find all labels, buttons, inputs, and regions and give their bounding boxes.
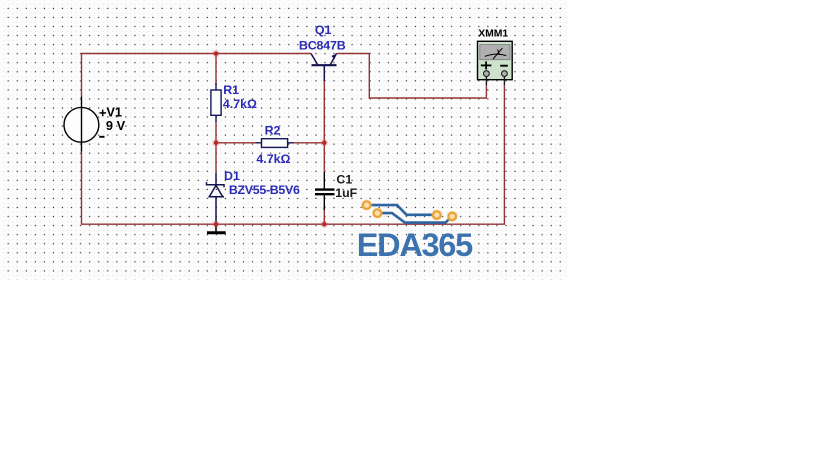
junction node C1 on bottom rail: [322, 222, 327, 227]
resistor R2: [256, 139, 294, 148]
multimeter XMM1: [478, 41, 513, 79]
wire top rail left: V1 to Q1 collector: [82, 54, 312, 97]
wire Q1 base down to node C: [323, 80, 325, 143]
svg-text:R1: R1: [223, 83, 239, 97]
svg-text:XMM1: XMM1: [478, 28, 508, 39]
ground: [207, 224, 226, 233]
transistor Q1: [311, 54, 337, 82]
capacitor C1: [315, 172, 335, 210]
wire multimeter - terminal down to bottom rail: [82, 85, 505, 224]
resistor R1: [211, 83, 221, 122]
svg-text:1uF: 1uF: [335, 186, 357, 200]
wire node C down to C1: [323, 143, 325, 172]
svg-text:EDA365: EDA365: [357, 227, 473, 263]
wire R2 right to node C: [293, 142, 324, 144]
svg-text:R2: R2: [265, 123, 281, 137]
XMM1 plus terminal mark: [481, 61, 492, 69]
junction halo glows: [212, 50, 328, 229]
wire C1 bottom to bottom rail: [323, 208, 325, 224]
schematic grid background: [0, 0, 569, 280]
svg-text:C1: C1: [336, 173, 352, 187]
svg-text:4.7kΩ: 4.7kΩ: [223, 97, 257, 111]
svg-text:BZV55-B5V6: BZV55-B5V6: [229, 183, 300, 197]
EDA365 logo pad 3: [431, 209, 442, 220]
EDA365 logo pad 4: [447, 211, 458, 222]
EDA365 logo pad 2: [372, 208, 383, 219]
wire node B down to D1: [215, 143, 217, 173]
junction node at R1 top on rail: [214, 51, 219, 56]
junction node D1/ground on bottom rail: [214, 222, 219, 227]
svg-text:V1: V1: [106, 104, 122, 119]
svg-text:BC847B: BC847B: [299, 39, 346, 53]
wire R1 top lead from rail: [215, 54, 217, 86]
svg-text:9 V: 9 V: [106, 118, 126, 133]
svg-text:4.7kΩ: 4.7kΩ: [256, 152, 290, 166]
junction node C (R2/Q1 base/C1): [322, 141, 327, 146]
EDA365 logo trace 2: [377, 213, 452, 223]
svg-text:Q1: Q1: [315, 23, 332, 37]
XMM1 + terminal pin: [484, 71, 490, 77]
svg-text:D1: D1: [224, 169, 240, 183]
wire R1 bottom to node B: [215, 121, 217, 143]
XMM1 - terminal pin: [502, 71, 508, 77]
XMM1 pin leads: [486, 77, 504, 86]
EDA365 logo pad 1: [361, 200, 372, 211]
V1 minus mark: [99, 136, 104, 138]
zener diode D1: [207, 173, 225, 224]
Q1 emitter arrow: [331, 54, 336, 59]
wire top rail right: Q1 emitter to corner, down and across to multimeter + terminal: [337, 54, 487, 99]
V1 plus mark: [100, 110, 107, 117]
EDA365 logo trace 1: [367, 205, 437, 215]
junction node B (R1/R2/D1): [214, 141, 219, 146]
XMM1 minus terminal mark: [500, 65, 508, 67]
voltage source V1: [64, 97, 99, 152]
wire node B to R2 left: [216, 142, 256, 144]
